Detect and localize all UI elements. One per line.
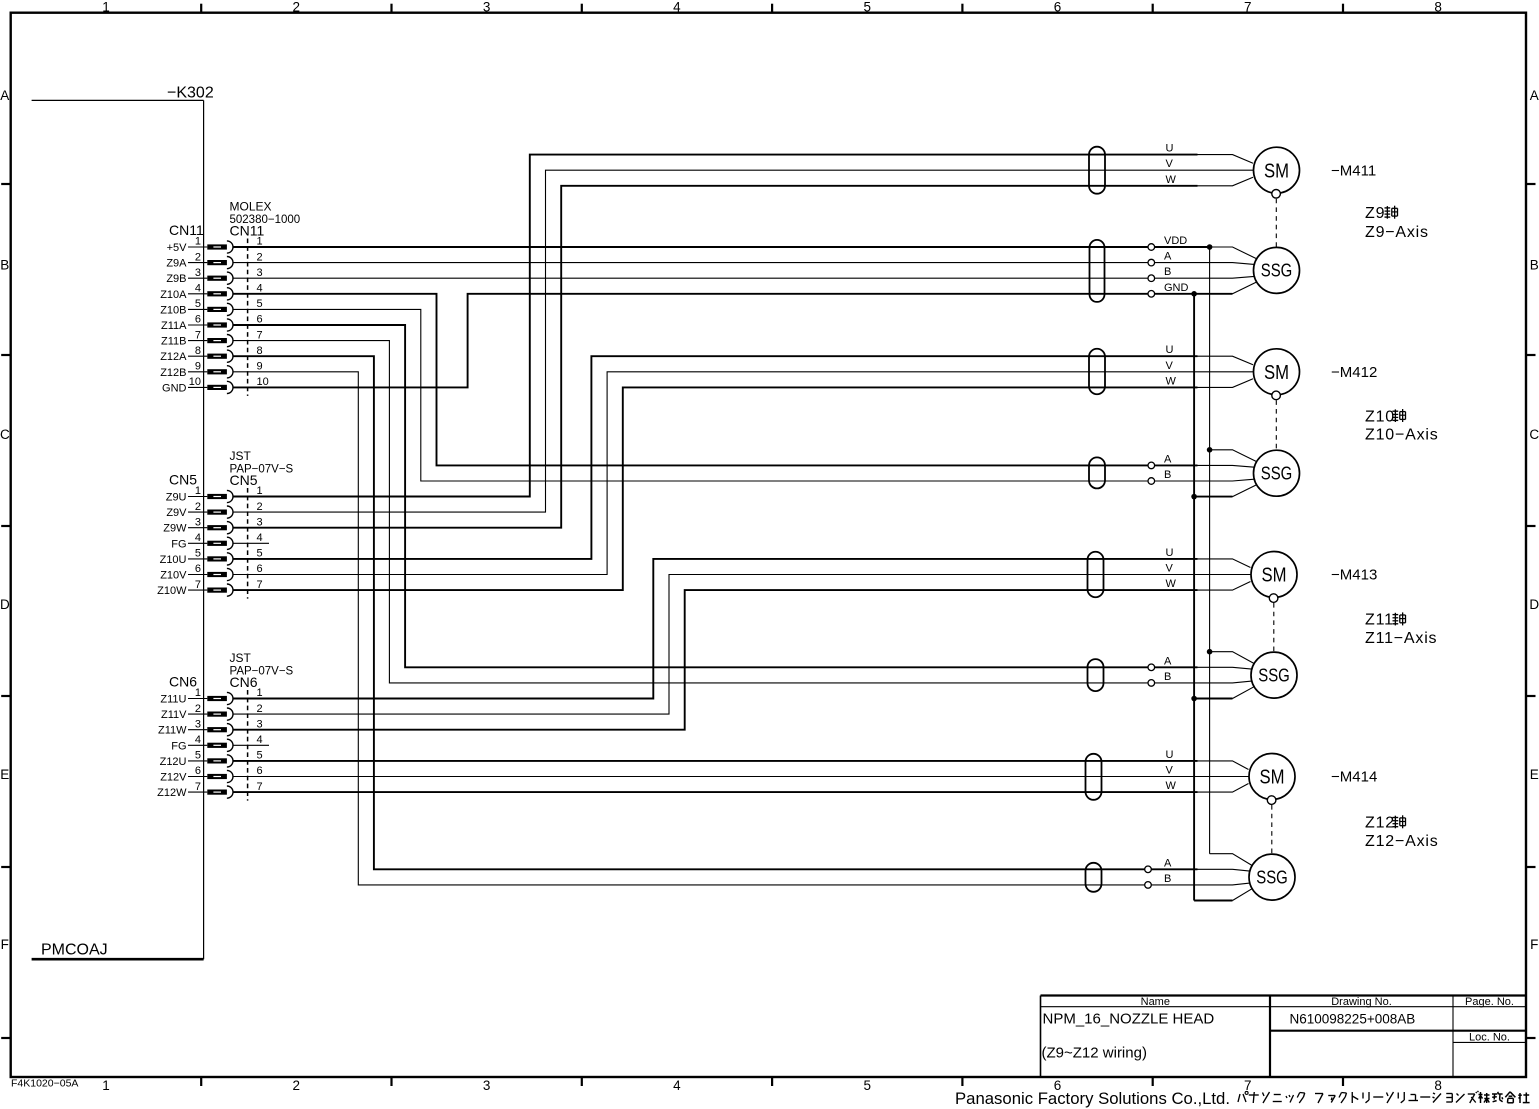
- company name latin: [955, 1089, 1230, 1108]
- svg-text:4: 4: [257, 532, 263, 544]
- svg-text:PMCOAJ: PMCOAJ: [41, 942, 108, 959]
- svg-text:2: 2: [195, 501, 201, 513]
- svg-text:7: 7: [195, 329, 201, 341]
- label -K302: [167, 85, 214, 102]
- svg-text:SSG: SSG: [1261, 261, 1293, 281]
- svg-text:Z9U: Z9U: [166, 492, 187, 504]
- svg-text:6: 6: [257, 765, 263, 777]
- svg-text:U: U: [1166, 749, 1174, 761]
- svg-text:Z9: Z9: [1365, 205, 1385, 222]
- svg-text:Z9B: Z9B: [166, 273, 186, 285]
- encoder symbol SSG1: [1254, 247, 1300, 293]
- wire Z9A net: CN11 pin2 to SSG1 A: [234, 263, 1255, 265]
- svg-text:FG: FG: [171, 538, 186, 550]
- svg-text:B: B: [1164, 469, 1171, 481]
- svg-text:3: 3: [195, 718, 201, 730]
- svg-text:CN5: CN5: [230, 472, 258, 488]
- relay block -K302 outline top: [32, 99, 204, 101]
- svg-text:2: 2: [257, 251, 263, 263]
- labels U V W for SM1: [1166, 143, 1177, 186]
- svg-text:NPM_16_NOZZLE HEAD: NPM_16_NOZZLE HEAD: [1043, 1011, 1215, 1028]
- svg-text:Z12: Z12: [1365, 815, 1395, 832]
- cable shield SSG3: [1088, 659, 1104, 691]
- svg-text:−M414: −M414: [1331, 769, 1377, 786]
- svg-text:1: 1: [102, 0, 110, 15]
- svg-text:JST: JST: [230, 449, 252, 463]
- svg-text:7: 7: [1244, 0, 1252, 15]
- motor symbol SM3: [1251, 552, 1297, 598]
- label -M412: [1331, 364, 1377, 381]
- grid row letters A-F: [0, 88, 1539, 952]
- wire Z11U net: CN6 pin1 to SM3 U: [234, 559, 1251, 699]
- label -M414: [1331, 769, 1377, 786]
- svg-text:F4K1020−05A: F4K1020−05A: [11, 1078, 78, 1090]
- svg-text:U: U: [1166, 547, 1174, 559]
- connector CN11 pin 1 (+5V): [167, 236, 263, 254]
- svg-text:Panasonic Factory Solutions Co: Panasonic Factory Solutions Co.,Ltd.: [955, 1089, 1230, 1108]
- svg-text:C: C: [0, 427, 10, 442]
- junction GND at SSG2: [1191, 494, 1197, 500]
- svg-text:CN6: CN6: [230, 674, 258, 690]
- svg-text:V: V: [1166, 158, 1174, 170]
- svg-text:A: A: [1164, 453, 1172, 465]
- svg-text:4: 4: [257, 734, 263, 746]
- connector CN5 pin 5 (Z10U): [160, 548, 263, 566]
- svg-text:E: E: [1530, 767, 1539, 782]
- svg-text:3: 3: [257, 718, 263, 730]
- svg-text:Z12V: Z12V: [160, 772, 187, 784]
- svg-text:5: 5: [195, 548, 201, 560]
- svg-text:5: 5: [257, 548, 263, 560]
- connector CN6 body dashed line: [247, 690, 249, 801]
- svg-text:SSG: SSG: [1258, 665, 1290, 685]
- svg-text:Z10W: Z10W: [157, 585, 187, 597]
- shaft dashed link M411: [1275, 199, 1277, 247]
- connector CN11 pin 7 (Z11B): [161, 329, 263, 347]
- svg-text:SSG: SSG: [1256, 867, 1288, 887]
- label -M411: [1331, 162, 1376, 179]
- title block grid: [1041, 996, 1527, 1078]
- connector CN11 pin 8 (Z12A): [160, 345, 262, 363]
- svg-text:D: D: [1529, 597, 1539, 612]
- svg-text:W: W: [1166, 780, 1177, 792]
- motor symbol SM1: [1254, 147, 1300, 193]
- svg-text:1: 1: [102, 1078, 110, 1093]
- wire Z11A net: CN11 pin6 to SSG3 A: [234, 325, 1252, 669]
- svg-text:Z9A: Z9A: [166, 258, 187, 270]
- encoder symbol SSG3: [1251, 652, 1297, 698]
- svg-text:SM: SM: [1264, 362, 1289, 384]
- svg-text:7: 7: [257, 579, 263, 591]
- svg-text:SSG: SSG: [1261, 464, 1293, 484]
- wire Z12U net: CN6 pin5 to SM4 U: [234, 761, 1249, 770]
- connector CN5 label (left): [169, 472, 197, 488]
- svg-text:W: W: [1166, 578, 1177, 590]
- connector CN5 pin 7 (Z10W): [157, 579, 262, 597]
- motor symbol SM2: [1254, 349, 1300, 395]
- title block header Drawing No.: [1331, 996, 1392, 1008]
- svg-text:1: 1: [257, 485, 263, 497]
- svg-text:3: 3: [257, 267, 263, 279]
- connector CN6 type label: [230, 651, 294, 690]
- shaft dashed link M414: [1271, 805, 1273, 854]
- GND branch to SSG2: [1194, 485, 1257, 497]
- svg-text:Z9−Axis: Z9−Axis: [1365, 224, 1429, 241]
- svg-text:5: 5: [257, 298, 263, 310]
- svg-text:Z9V: Z9V: [166, 507, 187, 519]
- encoder symbol SSG4: [1249, 854, 1295, 900]
- connector CN6 label (left): [169, 674, 197, 690]
- terminals and labels SSG2: [1148, 453, 1172, 484]
- wire Z9U net: CN5 pin1 to SM1 U: [234, 155, 1254, 497]
- svg-text:Z11W: Z11W: [158, 725, 187, 737]
- VDD bus vertical: [1209, 247, 1211, 854]
- connector CN6 pin 5 (Z12U): [160, 750, 263, 768]
- relay block -K302 outline right: [203, 100, 205, 959]
- svg-text:V: V: [1166, 563, 1174, 575]
- svg-text:1: 1: [195, 236, 201, 248]
- svg-text:4: 4: [673, 0, 681, 15]
- svg-text:4: 4: [257, 283, 263, 295]
- cable shield SM1: [1089, 147, 1105, 194]
- GND branch to SSG4: [1194, 889, 1252, 901]
- svg-text:5: 5: [195, 750, 201, 762]
- svg-text:7: 7: [195, 781, 201, 793]
- svg-text:Z12−Axis: Z12−Axis: [1365, 833, 1439, 850]
- wire Z11V net: CN6 pin2 to SM3 V: [234, 575, 1252, 715]
- svg-text:Z12B: Z12B: [160, 367, 186, 379]
- svg-text:7: 7: [257, 781, 263, 793]
- connector CN5 body dashed line: [247, 488, 249, 599]
- wire Z10V net: CN5 pin6 to SM2 V: [234, 372, 1254, 575]
- wire Z9B net: CN11 pin3 to SSG1 B: [234, 276, 1255, 278]
- connector CN11 pin 6 (Z11A): [161, 314, 263, 332]
- svg-text:Z12W: Z12W: [157, 787, 187, 799]
- svg-text:4: 4: [673, 1078, 681, 1093]
- VDD branch to SSG4: [1210, 854, 1253, 866]
- GND branch to SSG3: [1194, 687, 1254, 699]
- connector CN11 type label: [230, 200, 301, 239]
- svg-text:B: B: [1164, 266, 1171, 278]
- title block value N610098225+008AB: [1290, 1012, 1416, 1027]
- label Z10-Axis: [1365, 427, 1439, 444]
- cable shield SSG4: [1086, 863, 1102, 892]
- svg-text:Z11U: Z11U: [160, 694, 186, 706]
- grid row tick marks: [1, 184, 1535, 1038]
- connector CN5 pin 1 (Z9U): [166, 485, 263, 503]
- relay block -K302 outline bottom: [32, 958, 204, 961]
- svg-text:8: 8: [257, 345, 263, 357]
- svg-text:Z10V: Z10V: [160, 570, 187, 582]
- svg-text:4: 4: [195, 283, 201, 295]
- connector CN5 pin 2 (Z9V): [166, 501, 262, 519]
- cable shield SM3: [1088, 552, 1104, 598]
- wire Z10U net: CN5 pin5 to SM2 U: [234, 356, 1254, 559]
- svg-text:C: C: [1529, 427, 1539, 442]
- wire GND net: CN11 pin10 to SSG1 GND: [234, 282, 1257, 387]
- title block header Name: [1141, 996, 1170, 1008]
- svg-text:6: 6: [1054, 0, 1062, 15]
- labels U V W for SM4: [1166, 749, 1177, 792]
- junction GND at SSG1: [1191, 291, 1197, 297]
- svg-text:9: 9: [257, 361, 263, 373]
- label PMCOAJ: [41, 942, 108, 959]
- svg-text:E: E: [0, 767, 9, 782]
- wire FG stub CN5 pin4: [234, 542, 270, 544]
- svg-text:W: W: [1166, 174, 1177, 186]
- svg-text:2: 2: [195, 251, 201, 263]
- motor -M413 shaft terminal circle: [1269, 594, 1278, 603]
- wire Z12B net: CN11 pin9 to SSG4 B: [234, 372, 1250, 885]
- connector CN6 pin 7 (Z12W): [157, 781, 262, 799]
- connector CN11 pin 5 (Z10B): [160, 298, 262, 316]
- wire Z11W net: CN6 pin3 to SM3 W: [234, 582, 1251, 730]
- svg-text:8: 8: [195, 345, 201, 357]
- svg-text:U: U: [1166, 143, 1174, 155]
- junction GND at SSG3: [1191, 696, 1197, 702]
- svg-text:B: B: [0, 257, 9, 272]
- connector CN11 pin 3 (Z9B): [166, 267, 262, 285]
- svg-text:F: F: [1530, 937, 1538, 952]
- svg-text:Z11V: Z11V: [161, 709, 187, 721]
- svg-text:4: 4: [195, 532, 201, 544]
- svg-text:8: 8: [1434, 1078, 1442, 1093]
- junction VDD at SSG2: [1207, 447, 1213, 453]
- connector CN11 pin 2 (Z9A): [166, 251, 262, 269]
- svg-text:JST: JST: [230, 651, 252, 665]
- wire Z12W net: CN6 pin7 to SM4 W: [234, 784, 1249, 793]
- wire Z12A net: CN11 pin8 to SSG4 A: [234, 356, 1250, 871]
- motor symbol SM4: [1249, 754, 1295, 800]
- labels U V W for SM3: [1166, 547, 1177, 590]
- svg-text:4: 4: [195, 734, 201, 746]
- svg-text:−M411: −M411: [1331, 162, 1376, 179]
- svg-text:B: B: [1530, 257, 1539, 272]
- cable shield SSG2: [1089, 457, 1105, 488]
- svg-text:CN5: CN5: [169, 472, 197, 488]
- title block value (Z9~Z12 wiring): [1042, 1045, 1147, 1062]
- svg-text:9: 9: [195, 361, 201, 373]
- svg-text:Z11A: Z11A: [161, 320, 187, 332]
- svg-text:1: 1: [257, 687, 263, 699]
- svg-text:Z12A: Z12A: [160, 351, 187, 363]
- svg-text:7: 7: [195, 579, 201, 591]
- svg-text:6: 6: [195, 765, 201, 777]
- label Z12-Axis: [1365, 833, 1439, 850]
- wire Z11B net: CN11 pin7 to SSG3 B: [234, 341, 1252, 683]
- svg-text:Z10−Axis: Z10−Axis: [1365, 427, 1439, 444]
- svg-text:SM: SM: [1264, 160, 1289, 182]
- svg-text:5: 5: [863, 1078, 871, 1093]
- shaft dashed link M413: [1273, 603, 1275, 652]
- svg-text:7: 7: [1244, 1078, 1252, 1093]
- svg-text:U: U: [1166, 344, 1174, 356]
- svg-text:F: F: [1, 937, 9, 952]
- svg-text:6: 6: [257, 563, 263, 575]
- svg-text:+5V: +5V: [167, 242, 188, 254]
- svg-text:6: 6: [257, 314, 263, 326]
- junction VDD at SSG3: [1207, 649, 1213, 655]
- connector CN5 type label: [230, 449, 294, 488]
- svg-text:Z11−Axis: Z11−Axis: [1365, 630, 1437, 647]
- cable shield SM4: [1086, 754, 1102, 800]
- motor -M411 shaft terminal circle: [1272, 190, 1281, 199]
- company name japanese: [1238, 1091, 1530, 1103]
- svg-text:−M412: −M412: [1331, 364, 1377, 381]
- cable shield SSG1: [1090, 240, 1105, 302]
- svg-text:3: 3: [195, 267, 201, 279]
- wire Z10A net: CN11 pin4 to SSG2 A: [234, 294, 1255, 467]
- wire Z9W net: CN5 pin3 to SM1 W: [234, 177, 1254, 528]
- svg-text:10: 10: [189, 376, 201, 388]
- connector CN11 pin 9 (Z12B): [160, 361, 262, 379]
- svg-text:3: 3: [257, 516, 263, 528]
- svg-text:5: 5: [195, 298, 201, 310]
- shaft dashed link M412: [1275, 400, 1277, 449]
- svg-text:A: A: [1164, 251, 1172, 263]
- svg-text:A: A: [1530, 88, 1539, 103]
- svg-text:Z12U: Z12U: [160, 756, 187, 768]
- svg-text:−K302: −K302: [167, 85, 214, 102]
- label Z12 axis (kanji): [1365, 815, 1406, 832]
- connector CN5 pin 4 (FG): [171, 532, 262, 550]
- connector CN6 pin 1 (Z11U): [160, 687, 262, 705]
- terminals and labels SSG3: [1148, 655, 1172, 686]
- connector CN5 pin 6 (Z10V): [160, 563, 262, 581]
- wire Z12V net: CN6 pin6 to SM4 V: [234, 776, 1250, 778]
- svg-text:2: 2: [293, 1078, 301, 1093]
- svg-text:Z10U: Z10U: [160, 554, 187, 566]
- connector CN6 pin 2 (Z11V): [161, 703, 263, 721]
- svg-text:Drawing No.: Drawing No.: [1331, 996, 1392, 1008]
- title block header Loc. No.: [1469, 1031, 1510, 1043]
- svg-text:Z10A: Z10A: [160, 289, 187, 301]
- wire FG stub CN6 pin4: [234, 744, 270, 746]
- svg-text:GND: GND: [1164, 282, 1189, 294]
- svg-text:B: B: [1164, 671, 1171, 683]
- svg-text:6: 6: [195, 563, 201, 575]
- wire +5V net: CN11 pin1 to SSG1 VDD: [234, 247, 1257, 259]
- label Z10 axis (kanji): [1365, 408, 1406, 425]
- svg-text:6: 6: [195, 314, 201, 326]
- junction VDD at SSG1: [1207, 244, 1213, 250]
- svg-text:5: 5: [257, 750, 263, 762]
- svg-text:VDD: VDD: [1164, 235, 1187, 247]
- svg-text:A: A: [1164, 655, 1172, 667]
- svg-text:Loc. No.: Loc. No.: [1469, 1031, 1510, 1043]
- svg-text:Name: Name: [1141, 996, 1170, 1008]
- svg-text:2: 2: [257, 501, 263, 513]
- terminals and labels SSG1: [1148, 235, 1189, 297]
- connector CN11 pin 4 (Z10A): [160, 283, 262, 301]
- svg-text:2: 2: [293, 0, 301, 15]
- svg-text:SM: SM: [1260, 767, 1285, 789]
- connector CN6 pin 6 (Z12V): [160, 765, 262, 783]
- svg-text:Page. No.: Page. No.: [1465, 996, 1514, 1008]
- svg-text:CN6: CN6: [169, 674, 197, 690]
- label Z11-Axis: [1365, 630, 1437, 647]
- VDD branch to SSG3: [1210, 652, 1255, 664]
- title block value NPM_16_NOZZLE HEAD: [1043, 1011, 1215, 1028]
- motor -M412 shaft terminal circle: [1272, 391, 1281, 400]
- wire Z10W net: CN5 pin7 to SM2 W: [234, 379, 1254, 590]
- VDD branch to SSG2: [1210, 450, 1257, 462]
- svg-text:10: 10: [257, 376, 269, 388]
- encoder symbol SSG2: [1254, 450, 1300, 496]
- svg-text:8: 8: [1434, 0, 1442, 15]
- label Z11 axis (kanji): [1365, 612, 1406, 629]
- svg-text:W: W: [1166, 375, 1177, 387]
- connector CN11 body dashed line: [247, 239, 249, 396]
- svg-text:Z10: Z10: [1365, 408, 1395, 425]
- GND bus vertical: [1193, 294, 1195, 901]
- connector CN11 label (left): [169, 222, 204, 238]
- svg-text:SM: SM: [1262, 565, 1287, 587]
- svg-text:1: 1: [257, 236, 263, 248]
- svg-text:Z10B: Z10B: [160, 304, 186, 316]
- svg-text:−M413: −M413: [1331, 567, 1377, 584]
- label -M413: [1331, 567, 1377, 584]
- svg-text:A: A: [0, 88, 9, 103]
- svg-text:2: 2: [257, 703, 263, 715]
- wire Z9V net: CN5 pin2 to SM1 V: [234, 170, 1254, 512]
- title block header Page. No.: [1465, 996, 1514, 1008]
- svg-text:5: 5: [863, 0, 871, 15]
- svg-text:A: A: [1164, 857, 1172, 869]
- connector CN6 pin 3 (Z11W): [158, 718, 263, 736]
- svg-text:(Z9~Z12 wiring): (Z9~Z12 wiring): [1042, 1045, 1147, 1062]
- svg-text:D: D: [0, 597, 10, 612]
- svg-text:7: 7: [257, 329, 263, 341]
- svg-text:V: V: [1166, 360, 1174, 372]
- svg-text:3: 3: [483, 0, 491, 15]
- svg-text:FG: FG: [171, 740, 186, 752]
- drawing code F4K1020-05A: [11, 1078, 78, 1090]
- wire Z10B net: CN11 pin5 to SSG2 B: [234, 309, 1255, 481]
- svg-text:V: V: [1166, 765, 1174, 777]
- svg-text:1: 1: [195, 485, 201, 497]
- svg-text:B: B: [1164, 873, 1171, 885]
- cable shield SM2: [1089, 349, 1105, 395]
- svg-text:3: 3: [195, 516, 201, 528]
- svg-text:N610098225+008AB: N610098225+008AB: [1290, 1012, 1416, 1027]
- label Z9 axis (kanji): [1365, 205, 1398, 222]
- svg-text:Z9W: Z9W: [163, 523, 187, 535]
- connector CN11 pin 10 (GND): [162, 376, 269, 394]
- svg-text:2: 2: [195, 703, 201, 715]
- connector CN6 pin 4 (FG): [171, 734, 262, 752]
- terminals and labels SSG4: [1145, 857, 1172, 888]
- labels U V W for SM2: [1166, 344, 1177, 387]
- grid column tick marks: [201, 4, 1343, 1086]
- motor -M414 shaft terminal circle: [1267, 796, 1276, 805]
- svg-text:3: 3: [483, 1078, 491, 1093]
- connector CN5 pin 3 (Z9W): [163, 516, 262, 534]
- svg-text:Z11B: Z11B: [161, 336, 186, 348]
- label Z9-Axis: [1365, 224, 1429, 241]
- svg-text:1: 1: [195, 687, 201, 699]
- svg-text:GND: GND: [162, 382, 187, 394]
- svg-text:MOLEX: MOLEX: [230, 200, 272, 214]
- svg-text:Z11: Z11: [1365, 612, 1394, 629]
